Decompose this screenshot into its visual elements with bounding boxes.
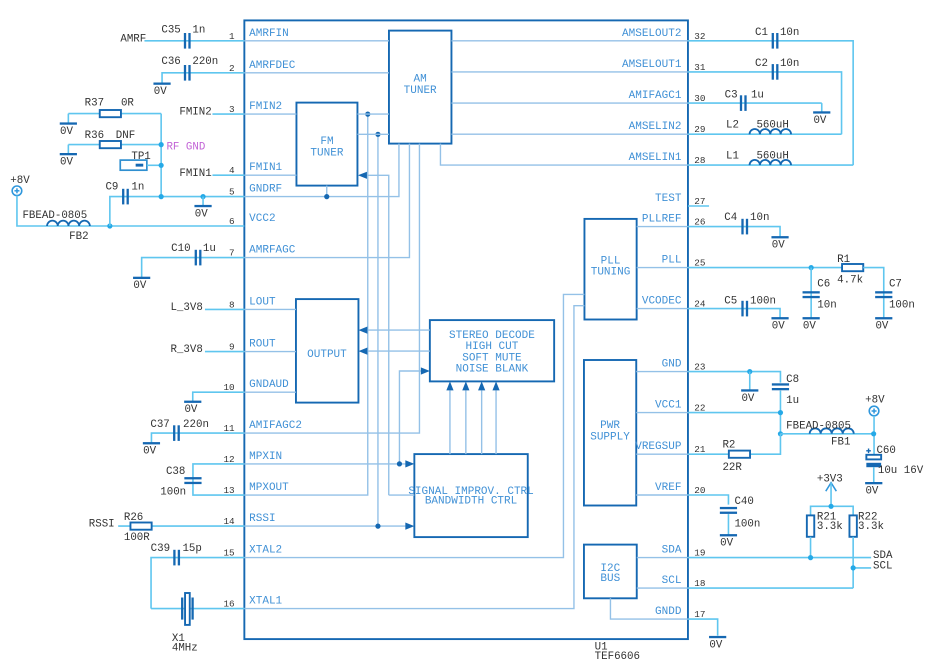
wire R21 to SDA line: [810, 537, 812, 558]
inductor L2 560uH: [726, 120, 791, 135]
node junction R22 / SCL: [851, 565, 856, 570]
wire net XTAL2 pin15 via C39: [151, 558, 244, 609]
svg-text:0V: 0V: [772, 321, 785, 333]
svg-text:C8: C8: [786, 374, 799, 386]
pin 6 VCC2 label and number: [229, 213, 276, 227]
svg-text:0R: 0R: [121, 98, 134, 110]
pin 27 TEST label and number: [655, 193, 705, 207]
svg-text:SCL: SCL: [873, 561, 892, 573]
node junction RF GND to GNDRF line: [159, 194, 164, 199]
wire C9 branch to GNDRF pin5: [110, 197, 245, 226]
pin 22 VCC1 label and number: [655, 400, 705, 414]
resistor R36 DNF: [85, 130, 136, 148]
wire pin4 FMIN1 to FM TUNER: [244, 174, 296, 176]
svg-text:VCC1: VCC1: [655, 400, 682, 412]
wire net AMSELOUT2 pin32 via C1: [688, 41, 853, 165]
svg-text:100n: 100n: [750, 296, 776, 308]
ferrite bead FB2 FBEAD-0805: [22, 210, 89, 243]
wire net AMRF pin1: [144, 40, 244, 42]
wire pin11 AMIFAGC2 to AM TUNER bottom: [244, 144, 419, 434]
capacitor C40 100n: [720, 496, 761, 531]
svg-text:FMIN2: FMIN2: [179, 107, 211, 119]
capacitor C37 220n: [150, 419, 209, 441]
svg-text:0V: 0V: [772, 240, 785, 252]
wire TP1 to RF GND vertical: [147, 164, 161, 166]
resistor R2 22R: [722, 440, 750, 474]
ground 0V under C3: [821, 103, 823, 112]
svg-text:TUNER: TUNER: [404, 85, 437, 97]
svg-text:SDA: SDA: [662, 545, 682, 557]
wire I2C BUS to pin17 GNDD: [610, 598, 688, 619]
wire net XTAL1 pin16: [151, 608, 244, 610]
wire net R_3V8 pin9: [205, 351, 244, 353]
svg-text:AMRFDEC: AMRFDEC: [249, 60, 296, 72]
wire net AMRFAGC pin7: [142, 258, 245, 278]
wire net MPXIN-MPXOUT external C38 loop: [193, 464, 244, 495]
wire AM TUNER to pin29: [451, 133, 688, 135]
node junction VCC2 / C9 branch: [107, 223, 112, 228]
svg-text:AMSELOUT2: AMSELOUT2: [622, 28, 681, 40]
capacitor C39 15p: [151, 543, 202, 565]
svg-text:0V: 0V: [875, 321, 888, 333]
svg-text:100n: 100n: [734, 519, 760, 531]
capacitor C8 1u: [772, 374, 799, 407]
block PWR SUPPLY: [584, 360, 636, 506]
capacitor C2 10n: [755, 58, 799, 80]
ground 0V under C5: [771, 317, 788, 319]
svg-text:VCC2: VCC2: [249, 213, 275, 225]
wire FM TUNER to AM TUNER upper: [357, 113, 389, 115]
pin 11 AMIFAGC2 label and number: [223, 420, 301, 434]
crystal X1 4MHz: [172, 593, 198, 655]
wire pin13 MPXOUT up to FM-AM line: [244, 114, 367, 495]
power +3V3 supply arrow symbol: [817, 473, 843, 506]
svg-text:XTAL1: XTAL1: [249, 596, 282, 608]
svg-text:0V: 0V: [709, 639, 722, 651]
node junction MPXIN branch: [397, 461, 402, 466]
wire SIGNAL IMPROV to STEREO DECODE arrows x4: [449, 390, 451, 454]
resistor R37 0R: [85, 98, 135, 118]
svg-text:MPXIN: MPXIN: [249, 451, 282, 463]
svg-text:DNF: DNF: [116, 130, 135, 142]
resistor R22 3.3k: [849, 512, 884, 537]
svg-text:FBEAD-0805: FBEAD-0805: [22, 210, 87, 222]
wire net AMSELIN1 pin28: [688, 164, 853, 166]
svg-text:TUNER: TUNER: [310, 148, 343, 160]
svg-text:RSSI: RSSI: [249, 513, 275, 525]
svg-text:0V: 0V: [813, 115, 826, 127]
wire STEREO DECODE to OUTPUT lower: [367, 350, 429, 352]
block AM TUNER: [389, 31, 452, 144]
wire AM TUNER to pin32: [451, 40, 688, 42]
pin 9 ROUT label and number: [229, 339, 276, 353]
wire net AMIFAGC2 pin11: [151, 433, 244, 443]
svg-text:AMSELOUT1: AMSELOUT1: [622, 59, 682, 71]
ground 0V under C6: [803, 317, 820, 319]
svg-text:VREF: VREF: [655, 482, 681, 494]
pin 32 AMSELOUT2 label and number: [622, 28, 705, 42]
block FM TUNER: [296, 103, 357, 186]
svg-text:4.7k: 4.7k: [837, 274, 863, 286]
svg-text:10n: 10n: [750, 212, 769, 224]
power +8V supply symbol left: [10, 175, 30, 196]
svg-text:100n: 100n: [889, 300, 915, 312]
wire net AMIFAGC1 pin30 via C3: [688, 102, 822, 104]
wire net GND pin23: [688, 372, 781, 383]
wire net FMIN2 stub pin3: [212, 113, 244, 115]
svg-text:OUTPUT: OUTPUT: [307, 349, 347, 361]
svg-text:1u: 1u: [203, 243, 216, 255]
wire net FMIN1 stub pin4: [212, 174, 244, 176]
node junction +8V / FB1: [871, 431, 876, 436]
wire pin1 AMRFIN to AM TUNER: [244, 40, 389, 42]
ground 0V under pin23: [749, 372, 751, 391]
node junction pin23 ground tap: [747, 369, 752, 374]
pin 8 LOUT label and number: [229, 296, 276, 310]
svg-text:PWR: PWR: [600, 420, 620, 432]
ground 0V under C37: [143, 442, 160, 444]
pin 4 FMIN1 label and number: [229, 162, 282, 176]
wire net PLL pin25: [688, 267, 842, 269]
svg-text:0V: 0V: [803, 321, 816, 333]
svg-text:FBEAD-0805: FBEAD-0805: [786, 421, 851, 433]
pin 25 PLL label and number: [662, 255, 706, 269]
svg-text:L_3V8: L_3V8: [170, 302, 202, 314]
wire net VREGSUP pin21 via R2: [688, 434, 781, 454]
svg-text:220n: 220n: [192, 56, 218, 68]
svg-text:C37: C37: [150, 419, 169, 431]
svg-text:4MHz: 4MHz: [172, 643, 198, 655]
wire PLL TUNING to pin25 PLL: [637, 267, 688, 269]
wire net AMSELOUT1 pin31 via C2: [688, 72, 842, 134]
wire pin5 GNDRF to AM TUNER bottom: [244, 144, 399, 197]
node junction VCC1 / FB1 / R2: [778, 431, 783, 436]
block I2C BUS: [584, 545, 637, 599]
svg-text:1u: 1u: [751, 90, 764, 102]
svg-text:GNDRF: GNDRF: [249, 184, 282, 196]
node junction R36 on RF GND: [159, 142, 164, 147]
wire FM TUNER to AM TUNER lower: [357, 133, 389, 135]
svg-text:LOUT: LOUT: [249, 296, 276, 308]
pin 18 SCL label and number: [662, 575, 706, 589]
pin 20 VREF label and number: [655, 482, 705, 496]
block PLL TUNING: [584, 219, 636, 320]
svg-text:0V: 0V: [720, 538, 733, 550]
svg-text:AMSELIN2: AMSELIN2: [629, 121, 682, 133]
node junction PLL / C6: [809, 265, 814, 270]
capacitor C60 10u 16V electrolytic: [866, 445, 923, 477]
svg-text:1n: 1n: [131, 181, 144, 193]
svg-text:GNDD: GNDD: [655, 606, 682, 618]
svg-text:AMIFAGC2: AMIFAGC2: [249, 420, 302, 432]
pin 24 VCODEC label and number: [642, 296, 706, 310]
svg-text:AMRF: AMRF: [120, 33, 146, 45]
wire STEREO DECODE to OUTPUT upper: [367, 329, 429, 331]
wire FM TUNER bottom to GNDRF net: [326, 186, 328, 197]
pin 29 AMSELIN2 label and number: [629, 121, 706, 135]
svg-text:C7: C7: [889, 278, 902, 290]
svg-text:0V: 0V: [184, 404, 197, 416]
pin 23 GND label and number: [662, 359, 706, 373]
wire pin7 AMRFAGC to AM TUNER bottom: [244, 144, 409, 258]
capacitor C36 220n: [161, 56, 218, 81]
pin 13 MPXOUT label and number: [223, 482, 289, 496]
capacitor C4 10n: [724, 212, 769, 235]
pin 15 XTAL2 label and number: [223, 545, 282, 559]
node junction FM bottom on GNDRF line: [324, 194, 329, 199]
pin 26 PLLREF label and number: [642, 214, 706, 228]
wire net SCL pin18: [688, 587, 853, 589]
svg-text:R_3V8: R_3V8: [170, 344, 202, 356]
wire I2C BUS to pin18 SCL: [637, 587, 688, 589]
svg-text:SUPPLY: SUPPLY: [590, 431, 630, 443]
wire C60 to ground: [873, 467, 875, 482]
svg-text:0V: 0V: [154, 86, 167, 98]
wire R37 net to RF GND vertical: [68, 113, 161, 115]
wire +8V to FB2 and pin6 VCC2: [17, 196, 244, 226]
wire pin14 RSSI to SIGNAL IMPROV block: [244, 525, 405, 527]
svg-text:+8V: +8V: [865, 395, 885, 407]
svg-text:AMSELIN1: AMSELIN1: [629, 152, 682, 164]
svg-text:0V: 0V: [195, 208, 208, 220]
node junction R21 / SDA: [808, 555, 813, 560]
svg-text:L2: L2: [726, 120, 739, 132]
svg-text:AMIFAGC1: AMIFAGC1: [629, 90, 682, 102]
svg-text:0V: 0V: [60, 157, 73, 169]
pin 30 AMIFAGC1 label and number: [629, 90, 706, 104]
svg-text:FB2: FB2: [69, 231, 88, 243]
capacitor C9 1n: [105, 181, 144, 204]
wire MPX feedback into FM TUNER with arrow: [389, 494, 415, 496]
resistor R1 4.7k: [837, 254, 863, 286]
node junction +3V3 rail: [828, 504, 833, 509]
wire PWR SUPPLY to pin23 GND: [636, 371, 688, 373]
pin 5 GNDRF label and number: [229, 184, 282, 198]
svg-text:100n: 100n: [160, 486, 186, 498]
capacitor C35 1n: [161, 25, 205, 49]
capacitor C1 10n: [755, 27, 799, 49]
block OUTPUT: [296, 299, 359, 403]
svg-text:0V: 0V: [143, 446, 156, 458]
pin 3 FMIN2 label and number: [229, 101, 282, 115]
svg-text:C60: C60: [876, 445, 895, 457]
ground 0V under C60: [865, 482, 882, 484]
svg-text:C6: C6: [817, 278, 830, 290]
ground 0V under C10: [133, 277, 150, 279]
capacitor C6 10n: [803, 278, 837, 311]
wire pin8 LOUT to OUTPUT: [244, 308, 296, 310]
pin 7 AMRFAGC label and number: [229, 245, 296, 259]
wire C40 to ground: [727, 514, 729, 535]
svg-text:C9: C9: [105, 181, 118, 193]
svg-text:0V: 0V: [865, 486, 878, 498]
svg-text:FMIN2: FMIN2: [249, 101, 282, 113]
svg-text:R2: R2: [722, 440, 735, 452]
svg-text:RF GND: RF GND: [166, 142, 205, 154]
pin 31 AMSELOUT1 label and number: [622, 59, 706, 73]
svg-text:220n: 220n: [183, 419, 209, 431]
svg-text:NOISE BLANK: NOISE BLANK: [456, 364, 529, 376]
wire PWR SUPPLY to pin20 VREF: [636, 494, 688, 496]
svg-text:560uH: 560uH: [756, 120, 788, 132]
wire I2C BUS to pin19 SDA: [637, 557, 688, 559]
svg-text:AMRFIN: AMRFIN: [249, 28, 289, 40]
wire +3V3 rail to R21 R22: [811, 506, 854, 515]
ground 0V under C40: [720, 534, 737, 536]
op-amp U1 TEF6606 main IC body: [244, 20, 688, 663]
svg-text:HIGH CUT: HIGH CUT: [466, 341, 519, 353]
wire AM TUNER to pin31: [451, 71, 688, 73]
svg-text:10u 16V: 10u 16V: [878, 465, 924, 477]
pin 2 AMRFDEC label and number: [229, 60, 296, 74]
capacitor C5 100n: [724, 296, 776, 317]
node junction ground tap on GNDRF line: [200, 194, 205, 199]
node junction TP1 on RF GND: [159, 163, 164, 168]
svg-text:PLLREF: PLLREF: [642, 214, 682, 226]
inductor L1 560uH: [726, 151, 791, 166]
pin 21 VREGSUP label and number: [635, 441, 706, 455]
svg-text:10n: 10n: [817, 300, 836, 312]
svg-text:C36: C36: [161, 56, 180, 68]
wire pin3 FMIN2 to FM TUNER: [244, 113, 296, 115]
svg-text:BUS: BUS: [600, 573, 620, 585]
wire AM TUNER bottom to pin28: [440, 144, 688, 166]
wire pin2 AMRFDEC to AM TUNER: [244, 72, 389, 74]
svg-text:R26: R26: [124, 512, 143, 524]
svg-text:PLL: PLL: [601, 255, 621, 267]
capacitor C3 1u: [725, 90, 764, 111]
svg-text:1n: 1n: [192, 25, 205, 37]
svg-text:MPXOUT: MPXOUT: [249, 482, 289, 494]
wire RSSI branch up to FM line: [377, 134, 379, 526]
svg-text:FM: FM: [320, 136, 333, 148]
pin 16 XTAL1 label and number: [223, 596, 282, 610]
svg-text:FMIN1: FMIN1: [179, 168, 211, 180]
wire RF GND vertical net: [160, 114, 162, 197]
svg-text:ROUT: ROUT: [249, 339, 276, 351]
node junction RSSI branch: [375, 524, 380, 529]
wire net GNDAUD pin10: [193, 392, 245, 401]
svg-text:TUNING: TUNING: [591, 267, 631, 279]
wire net VCC1 pin22: [688, 412, 781, 414]
wire PWR SUPPLY to pin22 VCC1: [636, 412, 688, 414]
capacitor C10 1u: [171, 243, 216, 265]
svg-text:100R: 100R: [124, 532, 150, 544]
wire PLL TUNING to pin24 VCODEC: [637, 308, 688, 310]
svg-text:560uH: 560uH: [756, 151, 788, 163]
ground 0V under R37: [67, 114, 69, 124]
wire net PLLREF pin26 via C4: [688, 227, 780, 237]
pin 12 MPXIN label and number: [223, 451, 282, 465]
wire net AMRFDEC pin2: [162, 73, 244, 83]
svg-text:C35: C35: [161, 25, 180, 37]
svg-text:R37: R37: [85, 98, 104, 110]
svg-text:R36: R36: [85, 130, 104, 142]
svg-text:C3: C3: [725, 90, 738, 102]
svg-text:SCL: SCL: [662, 575, 682, 587]
wire +8V to FB1 node and C60: [873, 416, 875, 455]
svg-text:C4: C4: [724, 212, 737, 224]
svg-text:15p: 15p: [182, 543, 201, 555]
wire net AMSELIN2 pin29: [688, 133, 842, 135]
ground 0V under C4: [771, 236, 788, 238]
wire net VREF pin20 via C40: [688, 495, 729, 505]
ground 0V on GNDRF line: [202, 197, 204, 206]
svg-text:TEST: TEST: [655, 193, 682, 205]
wire AM TUNER to pin30: [451, 102, 688, 104]
svg-text:FB1: FB1: [831, 436, 850, 448]
ground 0V under pin10 GNDAUD: [184, 401, 201, 403]
svg-text:GND: GND: [662, 359, 682, 371]
svg-text:TP1: TP1: [131, 151, 150, 163]
svg-text:C38: C38: [166, 466, 185, 478]
test point TP1: [120, 151, 151, 170]
svg-text:3.3k: 3.3k: [817, 521, 843, 533]
svg-text:0V: 0V: [133, 280, 146, 292]
ground 0V under pin17 GNDD: [709, 636, 726, 638]
pin 28 AMSELIN1 label and number: [629, 152, 706, 166]
svg-text:AM: AM: [414, 74, 427, 86]
wire C8 to VCC1 node: [779, 391, 781, 434]
svg-text:R1: R1: [837, 254, 850, 266]
node junction VCC1 / C8: [778, 410, 783, 415]
resistor R26 100R: [124, 512, 152, 544]
svg-text:C1: C1: [755, 27, 768, 39]
ground 0V under C36: [153, 83, 170, 85]
svg-text:10n: 10n: [780, 58, 799, 70]
wire net L_3V8 pin8: [205, 308, 244, 310]
block SIGNAL IMPROV. CTRL / BANDWIDTH CTRL: [408, 454, 533, 537]
node junction MPXOUT on FMIN2-AM line: [365, 112, 370, 117]
pin 19 SDA label and number: [662, 545, 706, 559]
svg-text:C39: C39: [151, 543, 170, 555]
svg-text:AMRFAGC: AMRFAGC: [249, 245, 296, 257]
svg-text:+8V: +8V: [10, 175, 30, 187]
svg-text:C40: C40: [734, 496, 753, 508]
svg-text:GNDAUD: GNDAUD: [249, 379, 289, 391]
wire R1 to C7: [863, 268, 884, 318]
svg-text:1u: 1u: [786, 395, 799, 407]
pin 17 GNDD label and number: [655, 606, 705, 620]
svg-text:TEF6606: TEF6606: [595, 651, 640, 663]
wire pin15 XTAL2 to PLL TUNING: [244, 294, 584, 557]
svg-text:C10: C10: [171, 243, 190, 255]
svg-text:3.3k: 3.3k: [858, 521, 884, 533]
wire FB1 line: [780, 433, 873, 435]
pin 14 RSSI label and number: [223, 513, 275, 527]
wire MPXIN branch up to STEREO DECODE: [399, 371, 420, 464]
wire R22 to SCL line: [852, 537, 854, 588]
svg-text:SOFT MUTE: SOFT MUTE: [462, 352, 522, 364]
wire TEST stub pin27: [688, 205, 709, 207]
svg-text:0V: 0V: [741, 393, 754, 405]
svg-text:STEREO DECODE: STEREO DECODE: [449, 330, 535, 342]
wire R36 net to RF GND vertical: [68, 144, 161, 146]
wire net GNDD pin17: [688, 619, 718, 636]
wire PLL TUNING to pin26 PLLREF: [637, 226, 688, 228]
svg-text:XTAL2: XTAL2: [249, 545, 282, 557]
pin 10 GNDAUD label and number: [223, 379, 289, 393]
svg-text:FMIN1: FMIN1: [249, 162, 282, 174]
svg-text:VREGSUP: VREGSUP: [635, 441, 682, 453]
wire pin10 GNDAUD to OUTPUT: [244, 391, 296, 393]
wire net RSSI pin14: [118, 525, 244, 527]
svg-text:PLL: PLL: [662, 255, 682, 267]
wire net VCODEC pin24 via C5: [688, 309, 780, 318]
wire pin16 XTAL1 to PLL TUNING: [244, 306, 584, 609]
wire SCL stub: [853, 567, 871, 569]
capacitor C7 100n: [875, 278, 915, 311]
